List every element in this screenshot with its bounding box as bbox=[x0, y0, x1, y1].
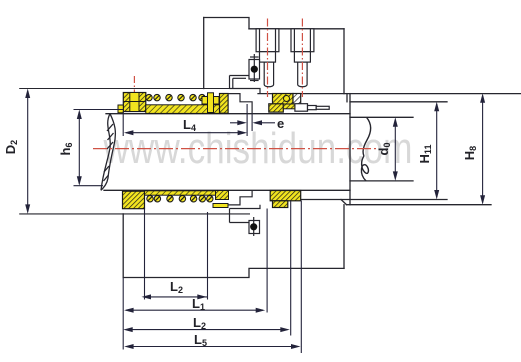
extension line L5 right bbox=[300, 201, 302, 354]
red centerline horizontal bbox=[93, 19, 378, 149]
shaft break right bbox=[361, 117, 370, 181]
extension line spring end bbox=[207, 212, 209, 300]
gland flange bracket bottom bbox=[230, 205, 261, 236]
retainer steps top bbox=[228, 94, 252, 114]
dimension L5 bbox=[124, 344, 300, 349]
dimension e bbox=[230, 114, 275, 131]
dimension d0 bbox=[393, 117, 398, 181]
shaft break left bbox=[101, 114, 115, 191]
label H8 bbox=[462, 146, 478, 160]
flush fitting on gland bbox=[295, 104, 329, 112]
housing right edge lower bbox=[343, 205, 345, 269]
rotating ring unit bottom bbox=[213, 191, 229, 208]
bolt 1 centerline bbox=[267, 19, 269, 98]
svg-text:L2: L2 bbox=[193, 315, 206, 331]
O-ring dot bottom bbox=[250, 223, 257, 230]
spring coils top bbox=[146, 94, 213, 100]
dimension h6 bbox=[74, 110, 124, 186]
housing step jog top right bbox=[346, 94, 348, 102]
svg-text:H8: H8 bbox=[462, 146, 478, 160]
label d0 bbox=[376, 143, 392, 156]
gland flange bracket top bbox=[230, 54, 261, 93]
shaft bottom line bbox=[104, 189, 350, 191]
svg-text:L5: L5 bbox=[194, 332, 207, 348]
housing step jog bottom right bbox=[341, 200, 347, 205]
housing bottom-left box bbox=[123, 214, 344, 278]
gland top edge / H8 top extension line bbox=[258, 93, 521, 95]
shaft bbox=[104, 114, 413, 191]
housing top-left block left edge bbox=[203, 18, 205, 89]
label h6 bbox=[58, 143, 74, 156]
stationary seat bottom bbox=[270, 191, 301, 208]
D2 bottom extension line bbox=[19, 213, 250, 215]
dimension H11 bbox=[434, 102, 439, 200]
H11 top extension line bbox=[350, 101, 447, 103]
bottom extension lines bbox=[123, 201, 301, 354]
bolt 2 centerline bbox=[301, 19, 303, 98]
dimension L2 small bbox=[142, 294, 208, 299]
dimension D2 bbox=[25, 89, 30, 214]
housing right edge upper bbox=[343, 29, 345, 94]
spring coils bottom bbox=[147, 196, 213, 202]
watermark www.chishidun.com bbox=[103, 124, 413, 173]
gland bolt 2 bbox=[291, 29, 314, 87]
housing top edge (counterbore line) bbox=[249, 28, 344, 30]
dimension L1 bbox=[124, 308, 265, 313]
set screw centerline bbox=[133, 76, 135, 112]
housing top-left block top edge bbox=[204, 18, 249, 29]
svg-text:D2: D2 bbox=[3, 140, 19, 154]
rotating ring unit top bbox=[202, 93, 228, 113]
extension line L2 right bbox=[290, 201, 292, 336]
label H11 bbox=[417, 145, 433, 164]
extension line left L dims bbox=[122, 278, 124, 350]
extension line L1 right bbox=[266, 209, 268, 313]
svg-text:L4: L4 bbox=[183, 117, 196, 133]
dimension L4 bbox=[123, 104, 247, 136]
dimension L2 long bbox=[123, 327, 290, 332]
D2 top extension line bbox=[19, 88, 248, 90]
svg-text:h6: h6 bbox=[58, 143, 74, 156]
svg-text:L1: L1 bbox=[192, 296, 205, 312]
O-ring dot top bbox=[251, 66, 258, 73]
shaft sleeve band bottom bbox=[145, 191, 218, 195]
set screw collar bottom bbox=[123, 191, 145, 209]
dimension H8 bbox=[480, 93, 485, 204]
shaft top line bbox=[106, 113, 350, 115]
gland bottom edge / H11 bottom extension bbox=[301, 199, 447, 201]
H8 bottom extension line bbox=[347, 204, 492, 206]
gland bolt 1 bbox=[256, 29, 279, 87]
extension line collar face bbox=[144, 209, 146, 300]
svg-text:H11: H11 bbox=[417, 145, 433, 164]
shaft sleeve band top bbox=[146, 105, 220, 114]
housing bore right edge bbox=[349, 94, 351, 205]
svg-text:L2: L2 bbox=[170, 279, 183, 295]
svg-text:e: e bbox=[277, 116, 284, 131]
retainer steps bottom bbox=[228, 190, 252, 205]
stationary seat top bbox=[269, 94, 301, 113]
shaft stub bottom line / d0 bottom extension bbox=[350, 180, 413, 182]
shaft stub top line / d0 top extension bbox=[350, 116, 413, 118]
set screw collar top bbox=[123, 93, 146, 112]
sleeve flange tab left bbox=[118, 105, 123, 113]
label D2 bbox=[3, 140, 19, 154]
